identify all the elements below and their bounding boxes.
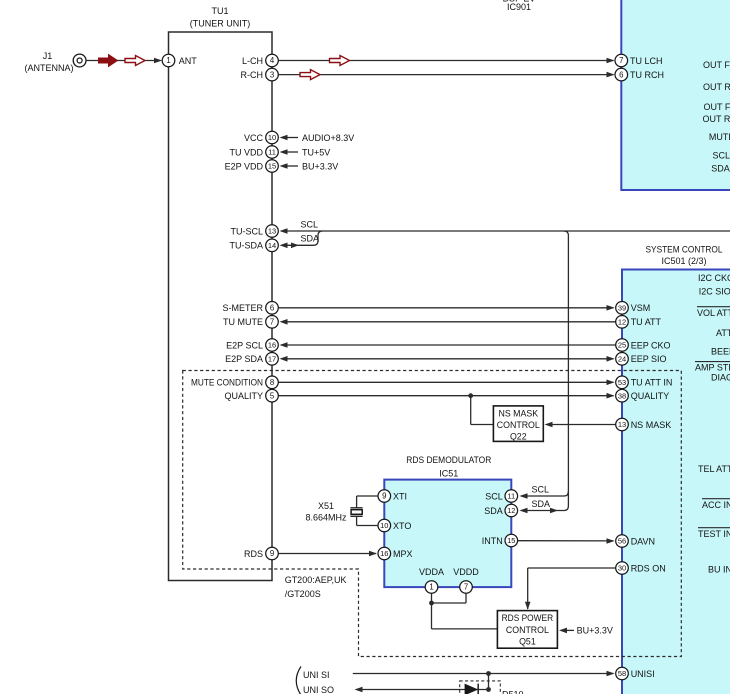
- svg-text:J1: J1: [43, 51, 53, 61]
- svg-text:SDA: SDA: [532, 499, 551, 509]
- IC501 pin 58: [616, 667, 629, 680]
- svg-text:IC901: IC901: [507, 2, 531, 12]
- svg-text:58: 58: [618, 669, 626, 678]
- svg-text:Q51: Q51: [519, 636, 536, 646]
- power net BU+3.3V into Q51: [566, 629, 574, 631]
- svg-text:10: 10: [380, 521, 388, 530]
- svg-text:UNISI: UNISI: [631, 669, 655, 679]
- wire UNI SI to IC501 pin58 UNISI: [353, 673, 614, 675]
- svg-text:5: 5: [270, 391, 275, 400]
- svg-text:VSM: VSM: [631, 303, 651, 313]
- svg-text:XTI: XTI: [393, 491, 407, 501]
- IC501 pin 12: [616, 316, 629, 329]
- wire from QUALITY junction down into Q22 box: [470, 396, 472, 425]
- svg-text:CONTROL: CONTROL: [497, 420, 540, 430]
- svg-text:D510: D510: [502, 690, 524, 694]
- svg-text:TU-SDA: TU-SDA: [230, 241, 264, 251]
- svg-text:15: 15: [507, 536, 515, 545]
- svg-text:24: 24: [618, 355, 626, 364]
- TU1 pin 14: [266, 239, 279, 252]
- wire NS MASK: IC501 pin13 to Q22 (arrow into Q22): [551, 424, 616, 426]
- svg-text:TU VDD: TU VDD: [230, 147, 264, 157]
- TU1 pin 5: [266, 389, 279, 402]
- IC51 RDS DEMODULATOR block: [384, 480, 511, 587]
- dashed outline around D510: [460, 681, 501, 694]
- svg-text:9: 9: [270, 549, 274, 558]
- svg-text:AMP STB: AMP STB: [695, 362, 730, 372]
- svg-text:EEP SIO: EEP SIO: [631, 354, 667, 364]
- signal-flow arrow (open red) on L-CH wire: [330, 56, 350, 66]
- svg-text:SCL: SCL: [485, 491, 503, 501]
- svg-text:VDDA: VDDA: [419, 567, 444, 577]
- svg-text:SCL: SCL: [301, 220, 319, 230]
- svg-text:VDDD: VDDD: [453, 567, 479, 577]
- IC501 pin 24: [616, 353, 629, 366]
- svg-text:UNI SI: UNI SI: [303, 670, 330, 680]
- power net BU+3.3V into TU1 pin15 E2P VDD: [286, 165, 298, 167]
- svg-text:SDA: SDA: [301, 234, 320, 244]
- wire SDA from TU1 pin14 merging into bus: [286, 231, 323, 245]
- svg-text:OUT FL: OUT FL: [703, 60, 730, 70]
- wire branch fillet into IC51 SDA pin12: [521, 506, 568, 511]
- IC51 pin 10: [378, 519, 391, 532]
- svg-text:RDS ON: RDS ON: [631, 563, 666, 573]
- svg-text:MUTE CONDITION: MUTE CONDITION: [191, 378, 263, 388]
- IC501 pin 39: [616, 302, 629, 315]
- svg-text:TU MUTE: TU MUTE: [223, 317, 263, 327]
- svg-text:Q22: Q22: [510, 432, 527, 442]
- signal-flow arrow (solid red) on antenna wire: [99, 55, 118, 67]
- svg-text:12: 12: [507, 506, 515, 515]
- svg-text:CONTROL: CONTROL: [506, 625, 549, 635]
- TU1 pin 10: [266, 131, 279, 144]
- svg-text:AUDIO+8.3V: AUDIO+8.3V: [302, 133, 354, 143]
- junction dot on QUALITY wire feeding Q22: [468, 393, 473, 398]
- svg-text:14: 14: [268, 241, 276, 250]
- IC51 pin 16: [378, 547, 391, 560]
- svg-text:38: 38: [618, 391, 626, 400]
- RDS wire: TU1 pin9 to IC51 pin16 MPX: [278, 553, 376, 555]
- svg-text:X51: X51: [318, 501, 334, 511]
- wire INTN: IC51 pin15 to IC501 pin56 DAVN: [518, 540, 614, 542]
- svg-text:15: 15: [268, 162, 276, 171]
- TU1 pin 7: [266, 316, 279, 329]
- svg-text:(TUNER UNIT): (TUNER UNIT): [190, 19, 251, 29]
- wire MUTE CONDITION: TU1 pin8 to IC501 pin53 TU ATT IN: [278, 381, 613, 383]
- power net AUDIO+8.3V into TU1 pin10 VCC: [286, 137, 298, 139]
- svg-text:SDA: SDA: [484, 506, 503, 516]
- svg-text:VOL ATT: VOL ATT: [697, 308, 730, 318]
- svg-text:SCL: SCL: [713, 151, 730, 161]
- junction dot VDDA/VDDD supply: [429, 601, 434, 606]
- svg-text:ATT: ATT: [716, 328, 730, 338]
- svg-text:ANT: ANT: [179, 56, 198, 66]
- IC51 pin 1: [425, 581, 438, 594]
- svg-text:S-METER: S-METER: [223, 303, 264, 313]
- svg-text:E2P SCL: E2P SCL: [226, 340, 263, 350]
- crystal X51 symbol: [350, 507, 362, 509]
- junction dot on UNISI wire for D510 branch: [486, 671, 491, 676]
- svg-text:L-CH: L-CH: [242, 56, 263, 66]
- svg-text:TEL ATT: TEL ATT: [698, 464, 730, 474]
- svg-text:MPX: MPX: [393, 549, 413, 559]
- svg-text:11: 11: [507, 492, 515, 501]
- svg-text:BU+3.3V: BU+3.3V: [302, 161, 338, 171]
- junction dot at diode cathode on UNI SO wire: [486, 687, 491, 692]
- transistor block Q51 RDS POWER CONTROL box: [497, 611, 557, 649]
- bracket grouping UNI SI / UNI SO nets: [296, 667, 301, 694]
- wire TU MUTE: IC501 pin12 TU ATT to TU1 pin7: [286, 321, 616, 323]
- IC51 pin 11: [505, 490, 518, 503]
- svg-text:8: 8: [270, 378, 274, 387]
- wire branch down from UNISI wire to diode cathode: [488, 674, 490, 690]
- dashed region boundary (GT200:AEP,UK /GT200S variant): [183, 371, 682, 657]
- wire L-CH: TU1 pin4 to IC901 pin7: [278, 60, 613, 62]
- svg-text:16: 16: [380, 549, 388, 558]
- svg-text:I2C SIO: I2C SIO: [699, 286, 730, 296]
- svg-text:7: 7: [619, 56, 623, 65]
- svg-text:XTO: XTO: [393, 521, 411, 531]
- svg-text:IC51: IC51: [439, 469, 458, 479]
- svg-text:/GT200S: /GT200S: [285, 589, 321, 599]
- svg-text:13: 13: [268, 227, 276, 236]
- svg-text:7: 7: [270, 318, 274, 327]
- svg-text:QUALITY: QUALITY: [631, 391, 670, 401]
- IC501 pin 30: [616, 562, 629, 575]
- wire VDDA pin1 down to supply junction: [431, 593, 433, 603]
- IC501 pin 38: [616, 389, 629, 402]
- svg-text:NS MASK: NS MASK: [631, 420, 672, 430]
- svg-text:BU+3.3V: BU+3.3V: [577, 626, 613, 636]
- svg-text:OUT RR: OUT RR: [703, 114, 730, 124]
- svg-text:SDA: SDA: [711, 164, 730, 174]
- svg-text:30: 30: [618, 564, 626, 573]
- TU1 pin 9: [266, 547, 279, 560]
- svg-text:(ANTENNA): (ANTENNA): [25, 63, 74, 73]
- diode D510 symbol: [465, 684, 479, 694]
- svg-text:SCL: SCL: [532, 485, 550, 495]
- svg-text:E2P VDD: E2P VDD: [225, 161, 264, 171]
- IC501 pin 25: [616, 339, 629, 352]
- wire E2P SCL: IC501 pin25 EEP CKO to TU1 pin16: [286, 344, 616, 346]
- svg-text:25: 25: [618, 341, 626, 350]
- svg-text:SYSTEM CONTROL: SYSTEM CONTROL: [646, 245, 723, 255]
- svg-text:GT200:AEP,UK: GT200:AEP,UK: [285, 575, 347, 585]
- svg-text:OUT FR: OUT FR: [704, 102, 730, 112]
- IC901 pin 6: [615, 68, 628, 81]
- svg-text:TU+5V: TU+5V: [302, 147, 330, 157]
- wire RDS ON: IC501 pin30 to Q51 top: [528, 567, 616, 569]
- TU1 pin 17: [266, 353, 279, 366]
- svg-text:IC501 (2/3): IC501 (2/3): [661, 256, 706, 266]
- tuner unit TU1 block outline: [169, 32, 273, 581]
- TU1 pin 11: [266, 146, 279, 159]
- svg-text:6: 6: [619, 70, 623, 79]
- wire UNI SO from diode leftward: [361, 689, 489, 691]
- TU1 pin 8: [266, 376, 279, 389]
- svg-text:UNI SO: UNI SO: [303, 685, 334, 694]
- wire SCL bus from TU1 pin13 across to right edge: [286, 230, 730, 232]
- svg-text:11: 11: [268, 148, 276, 157]
- TU1 pin 6: [266, 302, 279, 315]
- svg-text:RDS: RDS: [244, 549, 263, 559]
- wire antenna: J1 to TU1 pin1 ANT: [86, 60, 160, 62]
- wire SCL/SDA branch down to IC51 (vertical at x=568): [564, 231, 569, 236]
- wire S-METER: TU1 pin6 to IC501 pin39 VSM: [278, 307, 613, 309]
- svg-text:56: 56: [618, 537, 626, 546]
- svg-text:6: 6: [270, 304, 274, 313]
- svg-text:RDS DEMODULATOR: RDS DEMODULATOR: [406, 455, 491, 465]
- svg-text:1: 1: [166, 56, 170, 65]
- IC901 pin 7: [615, 54, 628, 67]
- svg-text:3: 3: [270, 70, 274, 79]
- IC U901 (DSP) block, cut off at top right: [621, 0, 730, 190]
- TU1 pin 4: [266, 54, 279, 67]
- wire crystal bottom to IC51 pin10 XTO: [356, 516, 358, 525]
- wire R-CH: TU1 pin3 to IC901 pin6: [278, 74, 613, 76]
- svg-text:TEST IN: TEST IN: [698, 529, 730, 539]
- svg-text:QUALITY: QUALITY: [224, 391, 263, 401]
- signal-flow arrow (open red) on R-CH wire: [300, 70, 320, 80]
- IC501 pin 56: [616, 535, 629, 548]
- TU1 pin 16: [266, 339, 279, 352]
- svg-text:12: 12: [618, 318, 626, 327]
- IC U501 SYSTEM CONTROL block, cut off at right/bottom: [622, 270, 730, 694]
- svg-text:TU ATT: TU ATT: [631, 317, 662, 327]
- TU1 pin 13: [266, 225, 279, 238]
- TU1 pin 15: [266, 160, 279, 173]
- IC501 pin 53: [616, 376, 629, 389]
- power net TU+5V into TU1 pin11 TU VDD: [286, 151, 298, 153]
- IC51 pin 12: [505, 504, 518, 517]
- svg-text:39: 39: [618, 304, 626, 313]
- svg-text:BEEP: BEEP: [711, 347, 730, 357]
- svg-text:4: 4: [270, 56, 275, 65]
- wire VDDD pin7 down and left to junction: [465, 593, 467, 603]
- svg-text:TU RCH: TU RCH: [630, 70, 664, 80]
- IC51 pin 9: [378, 490, 391, 503]
- TU1 pin 1: [162, 54, 175, 67]
- svg-text:E2P SDA: E2P SDA: [225, 354, 263, 364]
- svg-text:1: 1: [429, 583, 433, 592]
- connector J1 (ANTENNA) jack symbol: [73, 54, 86, 67]
- svg-text:R-CH: R-CH: [241, 70, 264, 80]
- svg-text:MUTE: MUTE: [709, 132, 730, 142]
- svg-text:ACC IN: ACC IN: [702, 500, 730, 510]
- IC51 pin 7: [460, 581, 473, 594]
- signal-flow arrow (open red) on antenna wire: [125, 56, 145, 66]
- IC51 pin 15: [505, 534, 518, 547]
- svg-text:OUT RL: OUT RL: [703, 82, 730, 92]
- svg-text:RDS POWER: RDS POWER: [502, 613, 554, 623]
- svg-text:DAVN: DAVN: [631, 536, 655, 546]
- svg-text:VCC: VCC: [244, 133, 264, 143]
- svg-text:TU-SCL: TU-SCL: [230, 226, 263, 236]
- svg-text:I2C CKO: I2C CKO: [698, 273, 730, 283]
- wire E2P SDA: TU1 pin17 to IC501 pin24 EEP SIO (bidirectional): [286, 358, 614, 360]
- svg-text:8.664MHz: 8.664MHz: [305, 512, 347, 522]
- svg-text:INTN: INTN: [482, 536, 503, 546]
- svg-text:17: 17: [268, 355, 276, 364]
- wire QUALITY: TU1 pin5 to IC501 pin38 QUALITY: [278, 395, 613, 397]
- svg-text:NS MASK: NS MASK: [498, 409, 538, 419]
- wire crystal top to IC51 pin9 XTI: [356, 496, 358, 508]
- svg-text:TU1: TU1: [211, 6, 228, 16]
- TU1 pin 3: [266, 68, 279, 81]
- svg-text:53: 53: [618, 378, 626, 387]
- svg-text:16: 16: [268, 341, 276, 350]
- svg-text:9: 9: [382, 492, 386, 501]
- wire branch fillet into IC51 SCL pin11: [521, 492, 568, 497]
- svg-text:EEP CKO: EEP CKO: [631, 340, 671, 350]
- svg-text:DIAG: DIAG: [711, 373, 730, 383]
- svg-text:BU IN: BU IN: [708, 565, 730, 575]
- wire supply junction down and right into Q51: [431, 603, 433, 629]
- svg-text:TU ATT IN: TU ATT IN: [631, 378, 673, 388]
- transistor block Q22 NS MASK CONTROL box: [493, 406, 543, 442]
- svg-text:7: 7: [464, 583, 468, 592]
- IC501 pin 13: [616, 418, 629, 431]
- svg-text:10: 10: [268, 133, 276, 142]
- svg-text:TU LCH: TU LCH: [630, 56, 663, 66]
- svg-text:13: 13: [618, 420, 626, 429]
